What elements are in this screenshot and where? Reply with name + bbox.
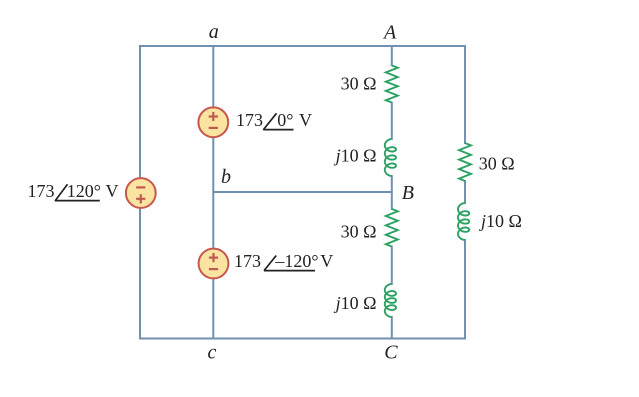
wire left branch	[139, 46, 141, 339]
wire top a-A	[140, 45, 465, 47]
inductor j10ohm lower middle (B-C)	[385, 284, 396, 317]
svg-text:j10 Ω: j10 Ω	[479, 211, 522, 231]
wire bottom c-C	[140, 338, 465, 340]
svg-text:A: A	[382, 21, 397, 43]
svg-text:0°: 0°	[277, 110, 293, 130]
svg-text:120°: 120°	[67, 181, 101, 201]
inductor j10ohm upper middle (A-B)	[385, 139, 396, 176]
svg-text:j10 Ω: j10 Ω	[334, 293, 377, 313]
svg-text:c: c	[208, 342, 217, 364]
voltage source Van 173/0 V (middle upper), + top	[198, 107, 228, 137]
resistor 30ohm right branch (A-C)	[459, 143, 471, 181]
svg-text:B: B	[402, 182, 414, 204]
voltage source Vcn 173/-120 V (middle lower), + top	[199, 249, 229, 279]
svg-text:V: V	[320, 251, 333, 271]
inductor j10ohm right branch (A-C)	[458, 203, 469, 240]
svg-text:173: 173	[236, 110, 263, 130]
svg-text:30 Ω: 30 Ω	[341, 222, 377, 242]
svg-text:j10 Ω: j10 Ω	[334, 146, 377, 166]
wire node b to node B	[213, 191, 391, 193]
svg-text:30 Ω: 30 Ω	[341, 74, 377, 94]
svg-text:C: C	[384, 342, 398, 364]
wire middle source branch	[212, 46, 214, 339]
svg-text:173: 173	[28, 181, 55, 201]
svg-text:173: 173	[234, 251, 261, 271]
svg-text:V: V	[106, 181, 119, 201]
svg-text:–120°: –120°	[274, 251, 318, 271]
wire segments middle load branch	[391, 46, 393, 65]
svg-text:V: V	[299, 110, 312, 130]
svg-text:b: b	[221, 166, 231, 188]
svg-text:a: a	[209, 21, 219, 43]
resistor 30ohm lower middle (B-C)	[386, 209, 398, 247]
svg-text:30 Ω: 30 Ω	[479, 154, 515, 174]
voltage source Vbn 173/120 V (left branch), - top	[126, 178, 156, 208]
resistor 30ohm upper middle (A-B)	[386, 66, 398, 103]
wire segments right branch	[464, 46, 466, 143]
